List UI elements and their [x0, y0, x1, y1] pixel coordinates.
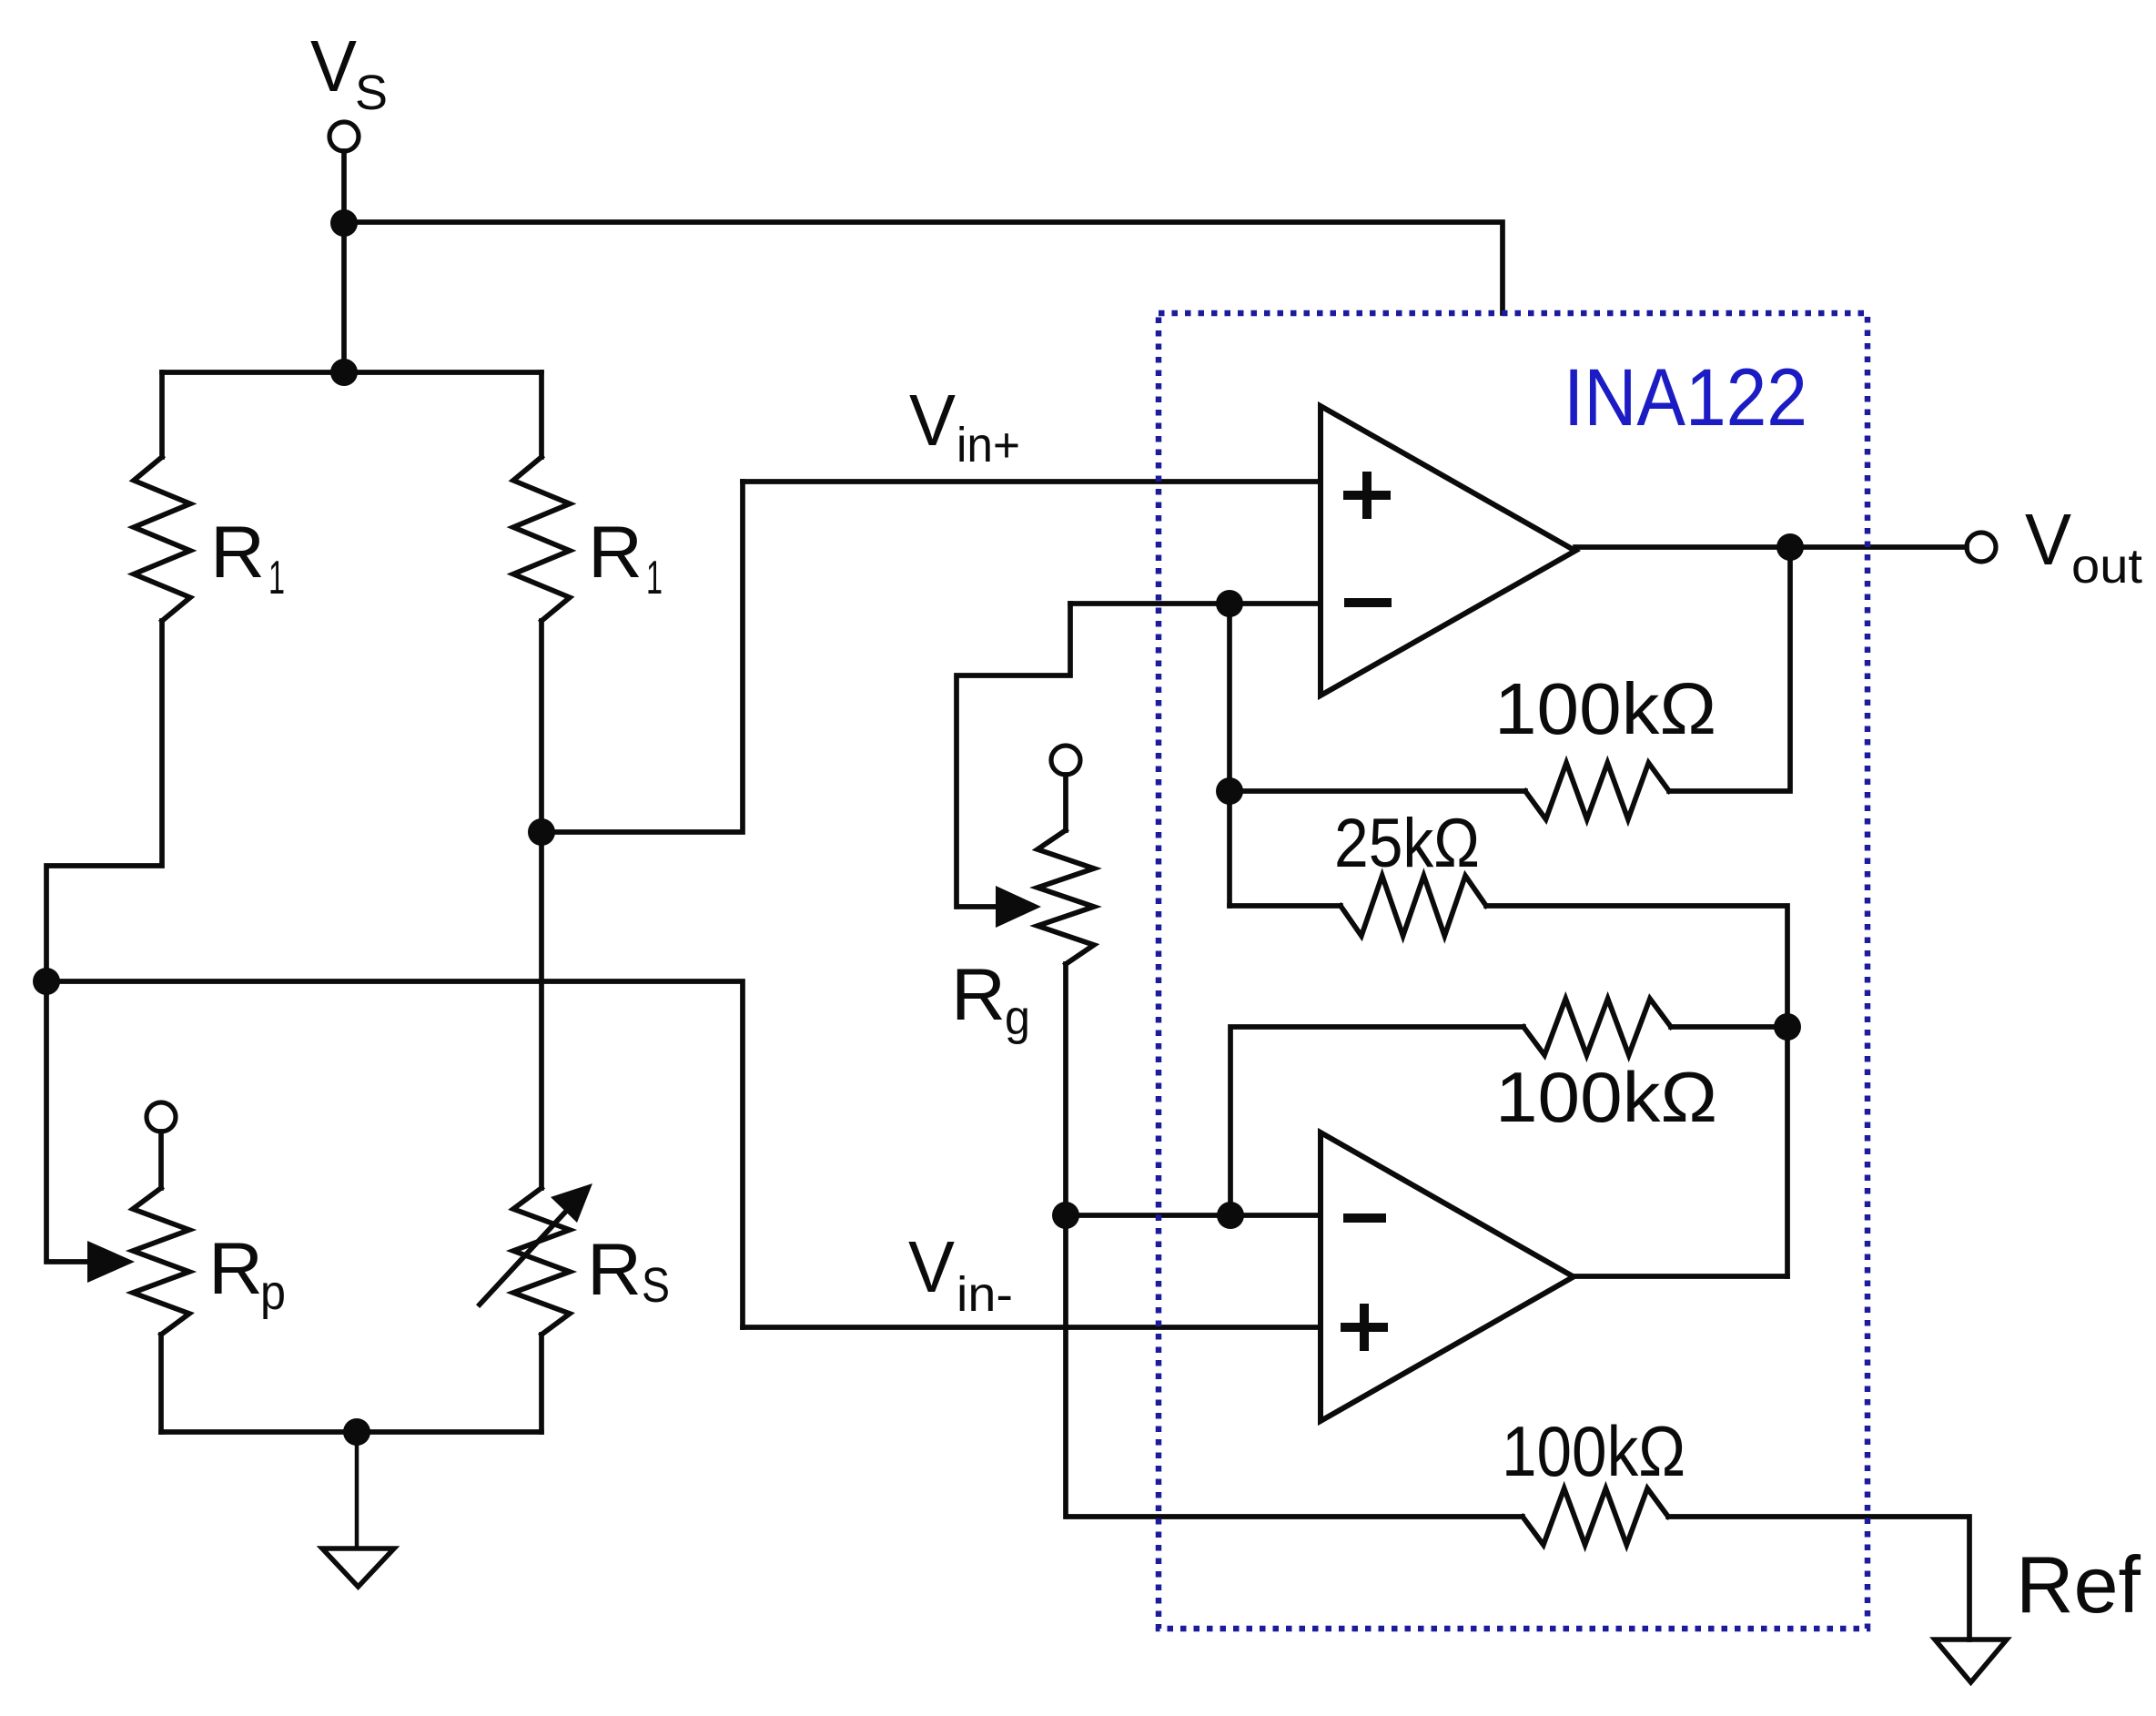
svg-text:V: V [2025, 499, 2072, 580]
resistor R1 right [513, 457, 570, 621]
ground (bridge) [322, 1548, 394, 1587]
svg-text:100kΩ: 100kΩ [1495, 1057, 1717, 1137]
wire Ref [1668, 1517, 1969, 1640]
wire Rp terminal stem [158, 1132, 164, 1188]
wire 100k-1 left [1230, 788, 1525, 794]
svg-text:in-: in- [957, 1267, 1013, 1322]
svg-text:S: S [355, 66, 388, 120]
label Rp [208, 1228, 286, 1320]
wire Rg to feedback node [1063, 964, 1068, 1215]
junction 100k-2 right node [1774, 1013, 1801, 1041]
wire bridge bottom [161, 1429, 542, 1435]
svg-text:R: R [951, 954, 1006, 1036]
variable resistor RS [480, 1183, 592, 1335]
resistor 100k Ref [1523, 1488, 1668, 1545]
wire Rg to Ref resistor [1066, 1215, 1523, 1517]
svg-text:in+: in+ [957, 418, 1020, 472]
label Vout [2025, 499, 2142, 594]
wire A1 minus input [1070, 601, 1321, 606]
label R1 left [210, 512, 285, 604]
label Vin- [908, 1226, 1013, 1322]
wire Vs stem [341, 151, 347, 223]
resistor 25k [1341, 876, 1486, 936]
junction bridge top node [330, 359, 358, 386]
wire Vin- [743, 1325, 1321, 1330]
wire bridge right upper leg [539, 372, 544, 457]
resistor R1 left [134, 457, 190, 621]
potentiometer Rp [133, 1188, 189, 1335]
terminal Rp [147, 1102, 176, 1132]
svg-text:S: S [642, 1258, 670, 1313]
ground (Ref) [1935, 1640, 2007, 1682]
label Vin+ [909, 380, 1020, 472]
label Vs [310, 25, 388, 120]
junction A2 minus node [1217, 1202, 1244, 1229]
svg-text:100kΩ: 100kΩ [1502, 1411, 1685, 1491]
op-amp A2 [1321, 1132, 1574, 1421]
wire A2 output [1574, 1274, 1787, 1279]
wire Vs to INA122 supply [344, 222, 1503, 313]
wire bridge left upper leg [159, 372, 165, 457]
svg-text:R: R [587, 1229, 642, 1311]
wire node B to Vin+ [542, 482, 743, 832]
op-amp A1 [1321, 406, 1575, 696]
potentiometer Rg wiper arrow [996, 886, 1041, 928]
wire Vin+ [743, 479, 1321, 484]
svg-text:p: p [260, 1265, 286, 1320]
wire feedback row [1066, 1213, 1321, 1218]
svg-text:1: 1 [268, 552, 285, 604]
junction A1 minus node [1216, 590, 1243, 617]
junction 100k-1 left node [1216, 777, 1243, 805]
wire 100k-2 left [1230, 1027, 1523, 1215]
junction output node [1776, 533, 1804, 561]
svg-text:1: 1 [646, 552, 663, 604]
wire N1 to 25k [1227, 604, 1232, 906]
svg-text:out: out [2071, 539, 2142, 594]
junction bridge bottom node [343, 1418, 370, 1446]
junction Vs node [330, 209, 358, 237]
svg-text:INA122: INA122 [1564, 351, 1807, 442]
junction Rg bottom node [1052, 1202, 1079, 1229]
svg-text:V: V [310, 25, 358, 107]
wire 100k-1 right [1669, 547, 1790, 791]
wire bridge top [162, 370, 542, 375]
junction left bridge mid node [33, 968, 60, 995]
wire node A to Vin- drop [46, 981, 743, 1327]
svg-text:V: V [909, 380, 957, 461]
wire Rp wiper feed [46, 981, 89, 1262]
wire 25k to A2 output [1486, 906, 1787, 1276]
wire A1 minus to Rg wiper [957, 604, 1070, 907]
wire bridge left lower leg [46, 621, 162, 981]
svg-text:R: R [588, 512, 643, 594]
terminal Vout [1967, 533, 1996, 562]
wire Rg terminal stem [1063, 775, 1068, 830]
label R1 right [588, 512, 663, 604]
wire Vs to bridge top [341, 223, 347, 372]
svg-text:25kΩ: 25kΩ [1334, 805, 1480, 882]
wire bridge right lower leg [539, 621, 544, 1188]
label RS [587, 1229, 670, 1313]
svg-text:R: R [210, 512, 265, 594]
resistor 100k feedback A1 [1525, 763, 1669, 819]
wire Rp to bridge bottom [158, 1335, 164, 1432]
terminal Vs [329, 122, 359, 151]
svg-text:Ref: Ref [2016, 1539, 2141, 1630]
wire 100k-2 right [1671, 1024, 1787, 1030]
wire ground stem left [355, 1432, 359, 1548]
wire RS to bridge bottom [539, 1335, 544, 1432]
label Rg [951, 954, 1030, 1045]
svg-text:V: V [908, 1226, 956, 1307]
box INA122 [1159, 313, 1868, 1629]
svg-text:g: g [1005, 990, 1030, 1045]
junction right bridge mid node [528, 818, 555, 846]
wire 25k left [1230, 903, 1341, 909]
resistor 100k feedback A2 [1523, 999, 1671, 1055]
svg-text:R: R [208, 1228, 263, 1310]
potentiometer Rg [1038, 830, 1094, 964]
terminal Rg [1051, 746, 1080, 775]
potentiometer Rp wiper arrow [87, 1241, 135, 1283]
wire A1 output [1575, 544, 1967, 550]
svg-text:100kΩ: 100kΩ [1494, 668, 1716, 749]
